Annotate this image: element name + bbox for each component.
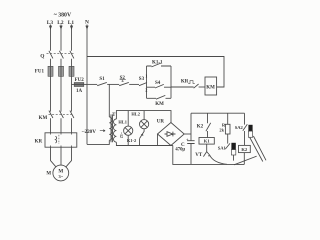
wire KM pole2 to KR box: [60, 118, 62, 133]
svg-text:1: 1: [145, 74, 147, 79]
contact K2 blade: [206, 123, 211, 131]
thermal relay KR box: [45, 133, 77, 147]
svg-text:K2: K2: [197, 124, 204, 129]
fuse FU1 pole1: [48, 66, 53, 76]
contact KM aux row: [147, 97, 172, 99]
sensor SA2 body lower: [248, 131, 252, 137]
svg-text:1A: 1A: [76, 89, 83, 94]
wire S1 to S2 (transformer tap junction at x=109.3): [107, 83, 119, 85]
svg-text:KR: KR: [181, 80, 189, 85]
svg-text:L2: L2: [57, 20, 64, 26]
SA1 probe diagonal: [234, 156, 257, 165]
contact K1-1 row: [147, 65, 172, 67]
sensor SA2 blade: [243, 124, 248, 131]
contact S4 blade: [155, 84, 164, 88]
right section left rail with capacitor gap: [190, 113, 192, 164]
transformer T primary winding: [109, 117, 112, 140]
contactor KM pole3 blade: [70, 111, 74, 118]
arrow L2: [59, 26, 62, 30]
lamp HL2: [140, 120, 149, 129]
phase line stubs in KR box: [51, 133, 72, 147]
breaker Q pole 2 blade: [59, 51, 63, 59]
arrow N: [85, 26, 88, 30]
svg-text:M: M: [46, 172, 51, 177]
parallel block left rail: [146, 66, 148, 98]
resistor R branch wire: [227, 113, 229, 143]
wire N supply drop: [86, 25, 88, 145]
wire KR to motor W: [66, 147, 72, 167]
lamp HL1 drop wire: [127, 111, 129, 127]
svg-text:K2: K2: [241, 147, 248, 152]
svg-text:FU2: FU2: [75, 78, 85, 83]
wire primary bottom to N: [87, 140, 109, 144]
SA1 stub: [233, 155, 235, 161]
svg-text:S2: S2: [120, 76, 126, 81]
button mark S2: [120, 80, 126, 82]
switch S2 blade: [119, 82, 129, 85]
rectifier UR bridge diamond: [158, 123, 185, 146]
arrow L1: [70, 26, 73, 30]
svg-text:SA1: SA1: [218, 146, 227, 151]
svg-text:~12: ~12: [119, 132, 123, 138]
svg-text:S1: S1: [99, 77, 105, 82]
wire secondary top to lamp rail: [116, 111, 171, 123]
lamp HL2 drop wire: [143, 111, 145, 120]
stub bridge left vertex to AC bottom: [157, 134, 159, 146]
svg-text:~220V: ~220V: [82, 129, 96, 135]
svg-text:S4: S4: [155, 81, 161, 86]
switch S3 blade: [139, 83, 147, 86]
fuse FU1 pole2: [59, 66, 64, 76]
switch S1 blade: [97, 82, 107, 85]
breaker Q pole 1 blade: [49, 51, 53, 59]
wire S2 to S3: [129, 83, 139, 85]
wire L1 supply drop: [71, 25, 73, 51]
svg-text:KM: KM: [155, 102, 164, 107]
SA2 probe diagonal 2: [253, 136, 266, 160]
contactor KM pole2 blade: [59, 111, 63, 118]
wire L1 FU1 to KM (junction to FU2 at y=84.4): [71, 76, 73, 111]
transformer core lines: [110, 114, 112, 142]
circuit schematic: motor water-level control: [0, 0, 300, 201]
right section top rail: [191, 112, 245, 114]
stub bridge right vertex to DC rail: [184, 133, 191, 135]
thermal contact KR blade: [194, 84, 199, 88]
contact K1-2 blade under HL2: [139, 129, 144, 139]
arrow L3: [49, 26, 52, 30]
svg-text:3~: 3~: [59, 174, 64, 179]
parallel block right rail: [170, 66, 172, 98]
wire L2 supply drop: [60, 25, 62, 51]
contactor KM pole1 blade: [49, 111, 53, 118]
transistor VT: [203, 152, 210, 157]
breaker Q pole 3 blade: [70, 51, 74, 59]
contactor KM linkage dashed: [49, 113, 74, 115]
svg-text:T: T: [112, 113, 116, 118]
fuse FU2: [74, 83, 84, 87]
svg-text:Q: Q: [40, 54, 44, 60]
sensor SA2 branch wire: [244, 113, 246, 145]
wire K2 to bottom rail: [243, 153, 245, 165]
sensor SA1 body black: [231, 143, 235, 150]
wire L2 FU1 to KM: [60, 76, 62, 111]
thermal KR hook symbol: [188, 81, 195, 84]
svg-text:2: 2: [145, 87, 147, 92]
breaker Q linkage (dashed): [47, 53, 74, 55]
svg-text:UR: UR: [157, 119, 165, 124]
wire K1 to VT: [206, 144, 208, 152]
wire DC minus down and right: [173, 146, 245, 165]
KR heater element symbol: [55, 136, 56, 143]
wire top rail (N to KM coil return): [87, 57, 224, 88]
wire KR to motor V: [60, 147, 62, 165]
wire L3 supply drop: [50, 25, 52, 51]
svg-text:KR: KR: [35, 139, 43, 144]
svg-text:K1-1: K1-1: [152, 61, 163, 66]
sensor SA1 body lower: [231, 150, 235, 155]
contact S4 row: [147, 86, 172, 88]
svg-text:VT: VT: [195, 153, 203, 158]
svg-text:470μ: 470μ: [175, 148, 185, 153]
contact K1-1 blade: [152, 63, 161, 67]
transformer secondary winding: [114, 119, 117, 142]
svg-text:HL2: HL2: [131, 111, 140, 116]
fuse FU1 pole3: [69, 66, 74, 76]
capacitor C plates: [187, 141, 194, 144]
svg-text:~ 380V: ~ 380V: [54, 12, 72, 18]
svg-text:SA2: SA2: [235, 125, 244, 130]
wire secondary bottom rail: [116, 142, 172, 145]
wires through FU1: [51, 66, 72, 76]
svg-text:KM: KM: [206, 86, 215, 91]
wire block to KR contact: [171, 86, 194, 88]
wire KR to motor U: [51, 147, 57, 167]
sensor SA1 blade: [225, 143, 230, 149]
svg-text:2k: 2k: [219, 127, 224, 132]
svg-text:KM: KM: [39, 116, 48, 121]
diode inside UR: [165, 132, 176, 137]
wire KR to KM coil: [199, 86, 205, 88]
svg-text:+: +: [186, 137, 189, 142]
wire KM pole3 to KR box: [71, 118, 73, 133]
wire through FU2: [74, 83, 84, 85]
transformer primary feed wire: [108, 84, 110, 117]
svg-text:FU1: FU1: [35, 70, 45, 75]
contact K2 branch wire: [207, 113, 209, 137]
svg-text:K1: K1: [204, 139, 211, 144]
svg-text:N: N: [85, 19, 89, 25]
svg-text:L1: L1: [68, 20, 75, 26]
arrow to primary: [100, 130, 105, 132]
svg-text:S3: S3: [139, 77, 145, 82]
lamp HL1: [124, 126, 133, 135]
resistor R box: [225, 124, 230, 134]
wire KM pole1 to KR box: [50, 118, 52, 133]
svg-text:L3: L3: [47, 20, 54, 26]
wire L2 to FU1: [60, 59, 62, 67]
svg-text:K1-2: K1-2: [127, 138, 136, 143]
wire L3 FU1 to KM: [50, 76, 52, 111]
coil KM box: [205, 77, 217, 95]
SA2 probe diagonal 1: [250, 138, 263, 162]
relay coil K1 box: [199, 138, 214, 145]
wire FU2 to S1: [84, 83, 97, 85]
wire control feed from L1: [72, 83, 75, 85]
relay coil K2 box: [239, 145, 251, 152]
svg-text:HL1: HL1: [118, 119, 127, 124]
sensor SA2 body black: [248, 125, 252, 131]
wire L3 to FU1: [50, 59, 52, 67]
contact KM aux blade: [156, 95, 165, 99]
motor M circle: [53, 165, 69, 181]
wire L1 to FU1: [71, 59, 73, 67]
